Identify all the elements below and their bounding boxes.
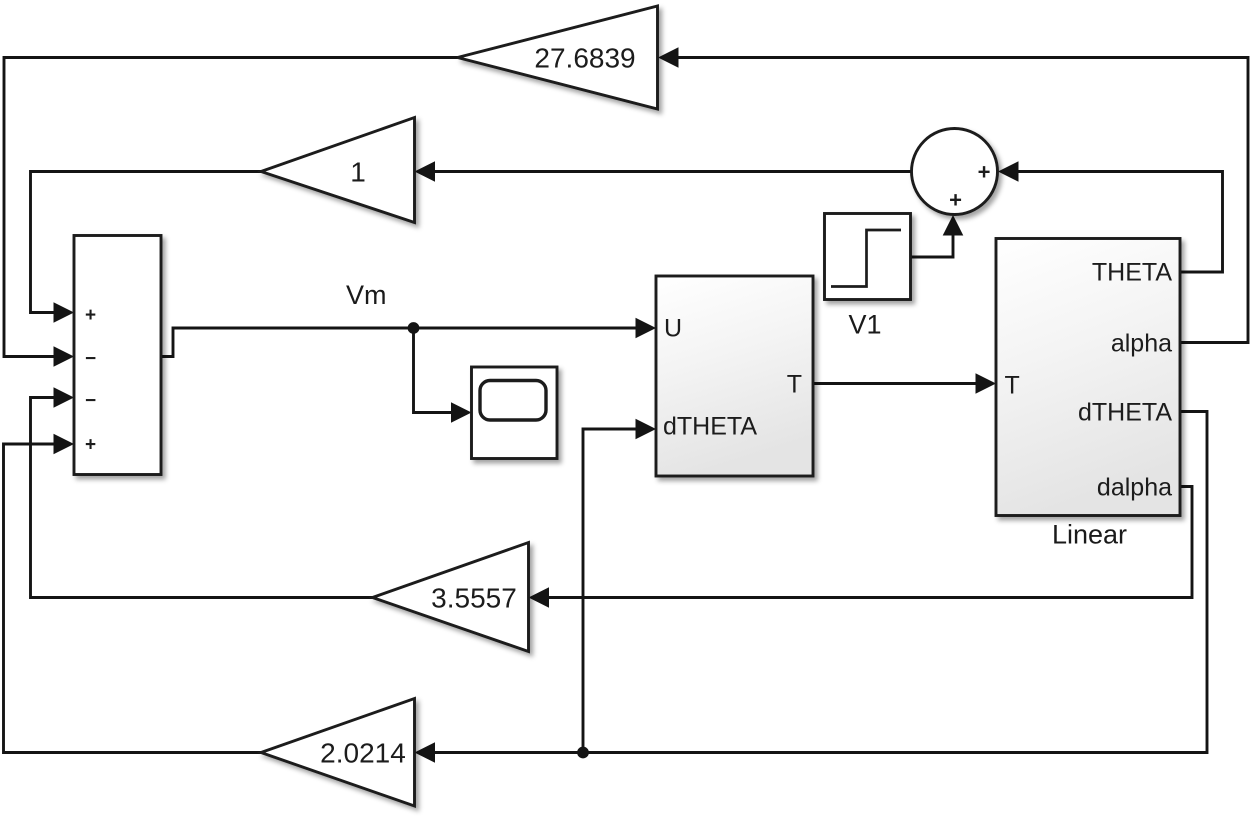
subsystem U/dTHETA -> T: [656, 276, 813, 476]
gain 27.6839: [458, 6, 658, 109]
arrowhead into gain 27.6839: [658, 47, 679, 68]
arrowhead into gain 1: [415, 161, 436, 182]
arrowhead into subsystem dTHETA input: [636, 419, 657, 440]
arrowhead into sum circle bottom: [943, 215, 964, 236]
svg-text:2.0214: 2.0214: [320, 738, 406, 769]
svg-text:+: +: [949, 188, 962, 213]
sum circle: [912, 129, 998, 215]
wire gain 3.5557 output -> sum input 3: [31, 398, 373, 598]
wire alpha feedback (Linear alpha -> gain 27.6839): [662, 58, 1248, 343]
svg-text:3.5557: 3.5557: [431, 583, 517, 614]
arrowhead into sum input 1: [54, 302, 75, 323]
arrowhead into subsystem U input: [636, 318, 657, 339]
svg-text:alpha: alpha: [1111, 330, 1172, 358]
wire subsystem T output -> Linear T input: [813, 382, 991, 385]
arrowhead into sum circle right: [998, 161, 1019, 182]
wire sum circle output -> gain 1: [419, 170, 912, 173]
svg-text:Vm: Vm: [346, 280, 387, 310]
wire Linear dTHETA output -> gain 2.0214: [419, 412, 1207, 753]
svg-text:−: −: [85, 391, 96, 412]
arrowhead into gain 3.5557: [529, 587, 550, 608]
svg-text:+: +: [85, 305, 96, 326]
svg-text:THETA: THETA: [1092, 259, 1172, 287]
svg-text:+: +: [978, 160, 991, 185]
svg-text:dalpha: dalpha: [1097, 474, 1172, 502]
wire gain 1 output -> sum input 1: [31, 172, 262, 313]
arrowhead into gain 2.0214: [415, 742, 436, 763]
wire sum output Vm -> subsystem U input: [161, 328, 651, 357]
subsystem Linear: [996, 239, 1180, 516]
scope block: [472, 367, 558, 459]
svg-text:−: −: [85, 349, 96, 370]
wire Linear THETA output -> sum circle right: [1002, 172, 1223, 273]
wire Vm branch -> scope: [414, 328, 468, 413]
svg-text:27.6839: 27.6839: [534, 43, 635, 74]
gain 2.0214: [261, 699, 415, 807]
svg-text:dTHETA: dTHETA: [663, 413, 757, 441]
arrowhead into sum input 4: [54, 434, 75, 455]
svg-text:+: +: [85, 435, 96, 456]
wire gain 2.0214 output -> sum input 4: [4, 444, 262, 753]
svg-text:T: T: [1005, 372, 1020, 400]
svg-text:Linear: Linear: [1052, 520, 1127, 550]
svg-text:V1: V1: [848, 310, 881, 340]
wire gain 27.6839 output -> sum input 2: [4, 58, 458, 357]
gain 3.5557: [373, 543, 529, 652]
arrowhead into Linear T input: [976, 373, 997, 394]
node Vm junction dot: [408, 322, 420, 334]
wire step V1 output -> sum circle bottom: [911, 234, 954, 257]
svg-text:dTHETA: dTHETA: [1078, 399, 1172, 427]
sum block (4-input add): [74, 236, 161, 475]
step source V1: [825, 214, 911, 300]
arrowhead into sum input 2: [54, 346, 75, 367]
svg-text:1: 1: [350, 157, 366, 188]
gain 1: [261, 118, 415, 223]
arrowhead into sum input 3: [54, 387, 75, 408]
wire Linear dalpha output -> gain 3.5557: [533, 487, 1192, 598]
arrowhead into scope: [451, 402, 472, 423]
svg-text:T: T: [787, 371, 802, 399]
wire dTHETA branch -> subsystem dTHETA input: [583, 429, 651, 753]
svg-text:U: U: [664, 315, 682, 343]
node dTHETA junction dot: [577, 747, 589, 759]
